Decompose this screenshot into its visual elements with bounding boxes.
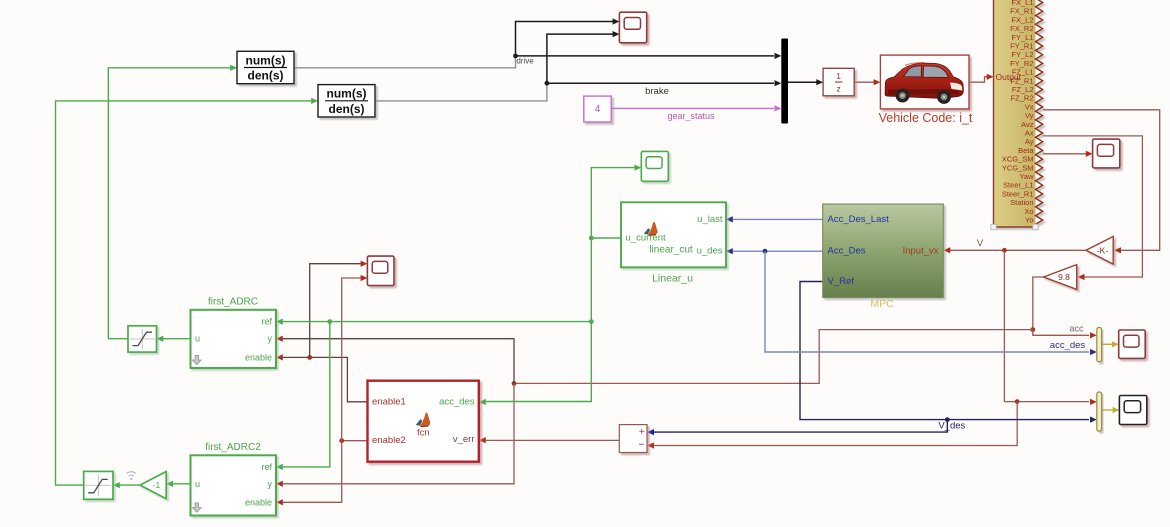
svg-text:-1: -1 <box>153 480 161 490</box>
svg-text:Acc_Des_Last: Acc_Des_Last <box>828 214 890 225</box>
svg-text:gear_status: gear_status <box>667 111 715 121</box>
svg-text:FX_R2: FX_R2 <box>1010 24 1033 33</box>
svg-text:FX_R1: FX_R1 <box>1010 7 1033 16</box>
svg-text:V_des: V_des <box>938 420 965 431</box>
svg-text:v_err: v_err <box>453 434 475 445</box>
svg-text:first_ADRC: first_ADRC <box>208 297 258 308</box>
svg-text:+: + <box>639 427 645 438</box>
svg-text:V: V <box>977 238 984 249</box>
svg-text:Input_vx: Input_vx <box>903 246 939 257</box>
svg-text:u: u <box>195 479 200 489</box>
svg-text:drive: drive <box>516 56 534 65</box>
svg-text:z: z <box>836 83 840 93</box>
svg-text:enable2: enable2 <box>372 435 406 446</box>
svg-text:Ay: Ay <box>1025 137 1034 146</box>
svg-text:enable: enable <box>245 497 272 507</box>
svg-text:fcn: fcn <box>417 427 430 438</box>
svg-text:u_last: u_last <box>697 214 723 225</box>
svg-text:enable: enable <box>245 352 272 362</box>
svg-text:YCG_SM: YCG_SM <box>1002 163 1034 172</box>
svg-text:Yo: Yo <box>1025 216 1034 225</box>
svg-text:Steer_L1: Steer_L1 <box>1003 181 1033 190</box>
svg-text:MPC: MPC <box>870 298 894 310</box>
svg-text:Vx: Vx <box>1025 102 1034 111</box>
svg-text:enable1: enable1 <box>372 396 406 407</box>
svg-text:Ax: Ax <box>1025 129 1034 138</box>
svg-text:FY_L1: FY_L1 <box>1011 33 1033 42</box>
svg-text:Station: Station <box>1010 198 1033 207</box>
svg-text:first_ADRC2: first_ADRC2 <box>205 442 261 453</box>
svg-text:FX_L2: FX_L2 <box>1011 15 1033 24</box>
svg-text:Vy: Vy <box>1025 111 1034 120</box>
svg-text:4: 4 <box>595 103 601 115</box>
svg-text:FY_R1: FY_R1 <box>1010 42 1033 51</box>
svg-text:den(s): den(s) <box>329 102 365 116</box>
svg-text:linear_cut: linear_cut <box>649 245 693 256</box>
svg-text:Avz: Avz <box>1021 120 1034 129</box>
svg-text:y: y <box>268 334 273 344</box>
svg-text:den(s): den(s) <box>248 69 284 83</box>
svg-text:Output: Output <box>996 72 1022 82</box>
svg-text:FY_L2: FY_L2 <box>1011 50 1033 59</box>
svg-text:V_Ref: V_Ref <box>828 276 855 287</box>
svg-text:y: y <box>268 479 273 489</box>
svg-text:u_des: u_des <box>697 246 723 257</box>
svg-text:1: 1 <box>836 71 841 81</box>
svg-text:acc: acc <box>1069 323 1084 333</box>
svg-text:Steer_R1: Steer_R1 <box>1002 189 1034 198</box>
svg-text:Yaw: Yaw <box>1019 172 1034 181</box>
svg-text:u: u <box>195 334 200 344</box>
svg-text:ref: ref <box>261 317 272 327</box>
svg-text:FZ_L2: FZ_L2 <box>1012 85 1034 94</box>
svg-text:9.8: 9.8 <box>1058 272 1070 282</box>
svg-text:brake: brake <box>645 86 669 97</box>
svg-text:num(s): num(s) <box>327 87 367 101</box>
svg-text:XCG_SM: XCG_SM <box>1002 155 1034 164</box>
svg-text:num(s): num(s) <box>246 53 286 67</box>
svg-text:ref: ref <box>261 462 272 472</box>
svg-text:FZ_R2: FZ_R2 <box>1011 94 1034 103</box>
svg-text:−: − <box>639 440 645 451</box>
svg-text:acc_des: acc_des <box>1050 340 1086 351</box>
svg-text:Vehicle Code: i_t: Vehicle Code: i_t <box>879 111 973 125</box>
svg-text:u_current: u_current <box>626 233 666 244</box>
svg-text:-K-: -K- <box>1097 246 1109 256</box>
svg-text:acc_des: acc_des <box>439 397 475 408</box>
svg-text:Acc_Des: Acc_Des <box>828 246 866 257</box>
svg-text:Linear_u: Linear_u <box>652 273 693 285</box>
svg-text:Beta: Beta <box>1018 146 1034 155</box>
svg-text:FY_R2: FY_R2 <box>1010 59 1033 68</box>
svg-text:Xo: Xo <box>1024 207 1033 216</box>
